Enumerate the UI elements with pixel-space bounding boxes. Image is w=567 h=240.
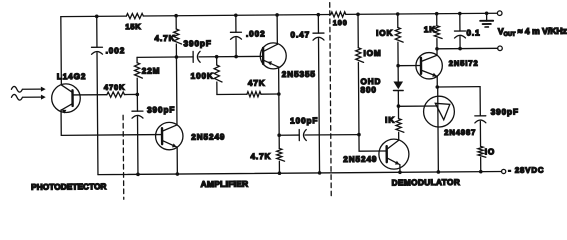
svg-text:100: 100 xyxy=(333,18,348,27)
svg-text:15K: 15K xyxy=(125,22,141,31)
svg-text:47K: 47K xyxy=(248,79,266,88)
svg-text:L14G2: L14G2 xyxy=(57,72,87,81)
svg-text:DEMODULATOR: DEMODULATOR xyxy=(392,177,461,188)
svg-text:.002: .002 xyxy=(246,29,266,38)
svg-text:1K: 1K xyxy=(424,25,436,34)
svg-text:470K: 470K xyxy=(104,83,126,92)
svg-text:.002: .002 xyxy=(106,46,126,55)
svg-text:100K: 100K xyxy=(191,72,214,81)
svg-text:- 28VDC: - 28VDC xyxy=(508,166,544,175)
svg-text:2N4987: 2N4987 xyxy=(444,128,476,137)
svg-text:IOM: IOM xyxy=(363,49,381,58)
svg-text:800: 800 xyxy=(360,85,376,94)
svg-text:4.7K: 4.7K xyxy=(250,152,271,161)
svg-text:2N5249: 2N5249 xyxy=(343,155,377,164)
svg-text:390pF: 390pF xyxy=(184,39,212,48)
svg-text:IK: IK xyxy=(385,116,395,125)
svg-text:22M: 22M xyxy=(142,66,161,75)
svg-text:100pF: 100pF xyxy=(290,116,318,125)
svg-text:2N5I72: 2N5I72 xyxy=(449,59,479,68)
svg-text:390pF: 390pF xyxy=(147,105,175,114)
svg-text:0.1: 0.1 xyxy=(466,28,480,37)
svg-text:IO: IO xyxy=(485,147,496,156)
svg-text:PHOTODETECTOR: PHOTODETECTOR xyxy=(31,182,106,192)
svg-text:2N5249: 2N5249 xyxy=(191,132,225,141)
svg-text:0.47: 0.47 xyxy=(290,30,310,39)
svg-text:390pF: 390pF xyxy=(491,107,519,116)
svg-text:4.7K: 4.7K xyxy=(154,34,175,43)
svg-text:AMPLIFIER: AMPLIFIER xyxy=(201,179,249,189)
svg-text:2N5355: 2N5355 xyxy=(282,70,316,79)
svg-text:IOK: IOK xyxy=(376,29,393,38)
